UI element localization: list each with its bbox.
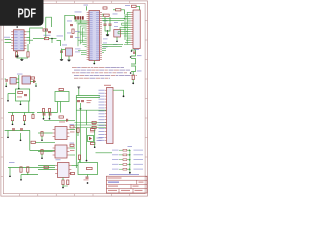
title block title text xyxy=(108,182,119,183)
wire xyxy=(38,151,53,153)
wire xyxy=(8,130,30,132)
wire xyxy=(21,58,23,59)
net label above LED column xyxy=(128,145,133,148)
frame grid reference ticks xyxy=(1,1,148,196)
net label right of D2 xyxy=(97,137,103,140)
capacitor C22 xyxy=(86,177,89,178)
wire xyxy=(120,26,127,28)
U8 pin stubs xyxy=(55,166,71,174)
resistor R19 xyxy=(70,144,74,146)
wire xyxy=(8,167,55,169)
optocoupler U6 body xyxy=(55,127,67,140)
microcontroller U1 ATmega body xyxy=(89,11,100,61)
diode D2 indicator box xyxy=(88,136,94,142)
node right of U4 xyxy=(35,85,37,87)
wire xyxy=(29,32,31,44)
wire xyxy=(62,185,64,187)
wire xyxy=(102,17,125,19)
ground under regulator xyxy=(60,58,63,61)
net label USB D+ xyxy=(75,11,82,14)
wire xyxy=(33,38,45,40)
wire xyxy=(5,130,8,132)
wire xyxy=(118,31,127,33)
ground node mid C15 xyxy=(43,118,45,120)
wire xyxy=(119,149,123,151)
wire xyxy=(78,49,87,51)
node VCC junction xyxy=(51,38,53,40)
wire xyxy=(93,61,95,64)
wire xyxy=(43,112,45,118)
wire xyxy=(82,27,86,29)
LED D6 xyxy=(129,163,131,165)
wire xyxy=(79,159,81,162)
wire xyxy=(7,94,9,101)
net label right of U1 b xyxy=(103,38,108,41)
ground node D2 chain xyxy=(86,160,88,162)
U7 pin stubs xyxy=(53,148,70,155)
transistor driver U8 body xyxy=(58,163,70,178)
wire xyxy=(126,12,128,44)
wire outline relay box xyxy=(55,92,69,102)
ground node mid C16 xyxy=(49,118,51,120)
LED note text xyxy=(109,174,139,175)
supply rail symbol xyxy=(77,87,80,89)
resistor R28b xyxy=(71,172,75,174)
wire xyxy=(80,25,86,27)
resistor R11 xyxy=(31,141,35,143)
wire xyxy=(62,49,66,51)
value label U7 xyxy=(70,149,75,152)
label in power box xyxy=(17,96,22,99)
ground node right chain xyxy=(132,82,134,84)
comparator U4 xyxy=(22,76,30,84)
wire xyxy=(26,28,43,32)
wire xyxy=(20,175,22,179)
net label bottom-left xyxy=(9,161,15,164)
J2 pin stubs xyxy=(105,90,107,140)
net label below J1 xyxy=(134,48,139,51)
net label LED5 left xyxy=(112,168,119,171)
U6 pin stubs xyxy=(53,130,70,137)
wire xyxy=(102,43,123,45)
resistor R28 xyxy=(123,154,127,156)
wire xyxy=(127,159,130,161)
wire xyxy=(5,40,12,43)
wire xyxy=(8,112,35,114)
wire xyxy=(131,59,136,65)
wire xyxy=(75,122,107,124)
wire xyxy=(119,27,121,29)
resistor R23 xyxy=(92,126,96,128)
wire xyxy=(102,49,106,51)
wire xyxy=(86,6,88,10)
wire xyxy=(17,57,29,59)
ground node R12 xyxy=(20,179,22,181)
wire xyxy=(132,80,134,83)
ground node below U1 xyxy=(93,63,95,65)
capacitor C16 xyxy=(48,109,50,113)
wire xyxy=(102,13,104,15)
title block rev xyxy=(139,182,144,183)
cap value labels 2 xyxy=(87,101,91,104)
wire xyxy=(51,39,53,43)
wire xyxy=(117,32,119,34)
wire xyxy=(49,38,57,40)
net label LED4 right xyxy=(134,163,144,166)
wire xyxy=(107,31,109,35)
schematic frame inner border xyxy=(3,3,145,193)
wire xyxy=(35,83,37,86)
resistor R9 xyxy=(11,116,13,121)
net label left of U1 c xyxy=(75,48,81,51)
ground node U7 xyxy=(41,157,43,159)
wire xyxy=(86,128,88,160)
wire xyxy=(120,29,126,31)
wire xyxy=(38,132,53,134)
wire xyxy=(61,49,63,59)
net label top xyxy=(84,4,89,7)
ground node power left xyxy=(7,100,9,102)
wire xyxy=(87,175,89,177)
net label left of U1 d xyxy=(75,51,80,54)
wire xyxy=(109,17,111,24)
resistor R12 xyxy=(20,167,22,172)
resistor R6 xyxy=(132,75,134,80)
title block row4 c xyxy=(135,190,143,191)
ground node osc mid xyxy=(18,88,20,90)
node below C7 xyxy=(116,41,118,43)
LED D3 xyxy=(129,149,131,151)
wire xyxy=(102,45,122,47)
net label LED1 left xyxy=(112,149,119,152)
op-amp U2 FT232 IC body xyxy=(14,30,25,51)
net label LED4 left xyxy=(112,163,119,166)
wire xyxy=(80,41,86,43)
wire xyxy=(131,66,136,72)
LED D7 xyxy=(129,168,131,170)
net label bundle c xyxy=(113,43,118,46)
net label right of U1 a xyxy=(103,20,108,23)
wire xyxy=(30,81,36,83)
ground node osc left xyxy=(5,85,7,87)
U1 pin name labels xyxy=(90,12,100,59)
resistor R4 xyxy=(72,29,74,33)
resistor R10 xyxy=(23,116,25,121)
ground below crystal caps xyxy=(106,33,109,36)
net label RXD xyxy=(4,36,10,39)
ground node LED column xyxy=(129,172,131,174)
ferrite bead L1 xyxy=(132,5,137,7)
wire xyxy=(77,22,89,24)
capacitor C25 xyxy=(49,114,52,115)
capacitor C7 package xyxy=(114,30,121,38)
node right chain a xyxy=(130,56,132,58)
wire xyxy=(27,44,29,52)
resistor R2 xyxy=(27,52,29,57)
wire xyxy=(78,23,87,25)
resistor R1 xyxy=(15,52,17,57)
ground node U6 xyxy=(41,139,43,141)
node R24 R25 xyxy=(94,146,96,148)
ground under regulator right xyxy=(67,58,70,61)
wire xyxy=(24,121,26,124)
net label VCC xyxy=(57,35,64,38)
R22 value xyxy=(92,123,96,126)
capacitor C15 xyxy=(42,109,44,113)
resistor R13 xyxy=(27,167,29,172)
capacitor C11 xyxy=(24,95,27,96)
wire xyxy=(21,174,38,176)
capacitor C23 xyxy=(103,7,107,9)
value label mid xyxy=(59,121,65,124)
wire xyxy=(8,93,16,95)
cap value labels xyxy=(87,99,92,102)
resistor R24 xyxy=(91,128,95,130)
wire xyxy=(104,17,106,24)
ground node C14 xyxy=(20,139,22,141)
wire xyxy=(131,50,136,56)
wire xyxy=(16,78,19,80)
wire xyxy=(9,168,11,176)
net label LED2 left xyxy=(112,153,119,156)
wire xyxy=(81,51,87,53)
wire xyxy=(75,20,77,21)
capacitor C10 xyxy=(34,80,35,83)
net label XT xyxy=(67,20,72,23)
capacitor C6 xyxy=(109,24,112,25)
wire xyxy=(5,83,7,87)
resistor R27 xyxy=(123,149,127,151)
wire xyxy=(80,33,86,35)
resistor R7 xyxy=(31,77,35,79)
U2 pin stubs xyxy=(11,32,26,49)
diode D2 symbol xyxy=(89,137,92,140)
wire xyxy=(80,110,82,162)
wire xyxy=(38,165,55,167)
wire xyxy=(85,45,87,47)
wire xyxy=(5,78,6,80)
wire xyxy=(119,159,123,161)
wire xyxy=(127,168,130,170)
wire xyxy=(37,112,58,114)
net label LED3 left xyxy=(112,158,119,161)
wire xyxy=(57,41,61,47)
wire xyxy=(28,101,30,113)
wire xyxy=(113,9,116,11)
capacitor C1 xyxy=(48,32,51,33)
U1 pin stubs xyxy=(87,13,102,60)
net label LED3 right xyxy=(134,158,144,161)
node mid-right bus xyxy=(80,108,82,110)
net label 3V3 xyxy=(62,44,67,47)
wire xyxy=(80,103,82,110)
wire xyxy=(60,102,62,113)
wire xyxy=(102,15,104,17)
wire xyxy=(77,24,79,46)
wire xyxy=(76,95,100,97)
J2 reference label xyxy=(104,85,111,86)
wire outline output section box xyxy=(78,163,98,175)
net label XT2 xyxy=(67,32,71,35)
wire outline power section box xyxy=(16,89,30,101)
value label bottom xyxy=(84,179,89,182)
wire xyxy=(76,97,100,99)
resistor R30 xyxy=(123,164,127,166)
wire xyxy=(69,147,75,149)
note text block xyxy=(72,67,137,79)
wire xyxy=(71,165,78,167)
wire xyxy=(69,154,75,156)
wire xyxy=(124,14,126,40)
ground node J2 right xyxy=(123,95,125,97)
wire xyxy=(30,150,55,152)
wire xyxy=(69,129,75,131)
wire xyxy=(38,169,55,171)
title block table xyxy=(106,176,147,193)
wire xyxy=(82,43,86,45)
wire xyxy=(32,113,34,115)
wire xyxy=(16,82,19,84)
wire xyxy=(96,152,113,154)
capacitor C5 xyxy=(104,24,107,25)
PDF badge xyxy=(0,0,44,26)
wire xyxy=(127,149,130,151)
wire xyxy=(75,127,107,129)
wire xyxy=(45,31,47,39)
capacitor C9 xyxy=(6,79,7,82)
ground node U8 xyxy=(62,187,64,189)
wire xyxy=(62,178,64,181)
capacitor C24 xyxy=(43,114,46,115)
net label LED2 right xyxy=(134,153,144,156)
net label VIN xyxy=(125,4,130,7)
wire xyxy=(122,22,128,24)
J1 pin stubs xyxy=(131,12,133,44)
net label right of U1 c xyxy=(103,42,107,45)
wire xyxy=(76,109,106,111)
J2 pin labels xyxy=(99,90,105,141)
schematic frame outer border xyxy=(1,1,148,196)
wire xyxy=(129,150,131,172)
capacitor C19 xyxy=(81,101,84,102)
node S1 junction xyxy=(45,29,46,30)
resistor R15 xyxy=(59,116,63,118)
wire xyxy=(78,31,87,33)
resistor R21 xyxy=(62,180,64,185)
net label bundle b xyxy=(114,25,118,28)
wire xyxy=(127,154,130,156)
wire xyxy=(26,36,29,38)
wire xyxy=(75,20,89,22)
capacitor C8 xyxy=(133,52,136,53)
connector J3 ISP header pins xyxy=(75,16,84,19)
net label LED5 right xyxy=(134,168,144,171)
wire xyxy=(79,26,81,44)
capacitor C12 xyxy=(32,115,34,119)
wire xyxy=(80,20,82,23)
resistor R25 xyxy=(91,142,95,144)
wire xyxy=(105,26,110,32)
wire loop of crystal section xyxy=(65,15,75,40)
net label AGND xyxy=(137,70,142,73)
wire xyxy=(85,29,87,31)
net label left of U1 a xyxy=(75,30,80,33)
wire xyxy=(118,33,126,35)
net label right of U6 xyxy=(70,123,75,126)
node below J1 xyxy=(131,50,133,52)
resistor R14 xyxy=(59,88,63,90)
title block doc name xyxy=(108,178,122,179)
resistor R3 xyxy=(43,29,47,31)
title block row4 b xyxy=(121,190,130,191)
value label U6 xyxy=(70,131,75,134)
LED D5 xyxy=(129,159,131,161)
title block sheet xyxy=(133,186,139,187)
ground node C13 xyxy=(7,136,9,138)
wire xyxy=(27,166,29,169)
net label right of U1 d xyxy=(103,46,108,49)
wire xyxy=(119,163,123,165)
net label LED1 right xyxy=(134,149,144,152)
resistor R26 xyxy=(87,167,93,169)
net label right of U7 xyxy=(70,142,75,145)
wire xyxy=(86,110,88,125)
optocoupler U7 body xyxy=(55,145,67,158)
resistor R8 xyxy=(18,91,23,93)
resistor R5 reset pullup xyxy=(116,9,121,11)
wire xyxy=(119,154,123,156)
wire xyxy=(26,39,33,41)
wire xyxy=(119,168,123,170)
net label DTR xyxy=(44,34,51,37)
net label AREF xyxy=(137,54,142,57)
node XTAL gnd xyxy=(107,30,108,31)
wire xyxy=(132,72,134,76)
resistor R20 xyxy=(44,166,48,168)
ground node R10 xyxy=(24,123,26,125)
resistor R18 xyxy=(41,150,43,155)
capacitor C21 xyxy=(78,155,80,159)
node junction above U2 xyxy=(16,26,18,28)
capacitor C18 xyxy=(77,101,80,102)
capacitor C13 xyxy=(12,129,15,130)
node right chain b xyxy=(130,72,132,74)
wire xyxy=(85,37,87,39)
wire xyxy=(16,51,18,52)
net label right of D2 b xyxy=(97,139,102,142)
ground node bottom-left xyxy=(9,175,11,177)
net label bundle a xyxy=(114,21,118,24)
wire xyxy=(81,28,83,42)
oscillator U3 xyxy=(10,78,16,85)
wire xyxy=(41,154,43,157)
title block row4 a xyxy=(108,190,117,191)
wire xyxy=(94,130,96,147)
diode D1 xyxy=(45,38,49,40)
wire xyxy=(35,141,55,143)
wire xyxy=(102,51,104,53)
crystal Y1 xyxy=(104,14,110,16)
wire loop of switch S1 xyxy=(46,17,52,28)
ground node R9 xyxy=(12,123,14,125)
resistor R22 xyxy=(92,121,96,123)
wire bundle to J1 xyxy=(124,12,131,44)
capacitor C3 xyxy=(70,36,73,37)
wire xyxy=(113,90,124,95)
voltage regulator U5 xyxy=(66,48,73,56)
wire xyxy=(57,102,59,113)
wire xyxy=(12,113,14,116)
